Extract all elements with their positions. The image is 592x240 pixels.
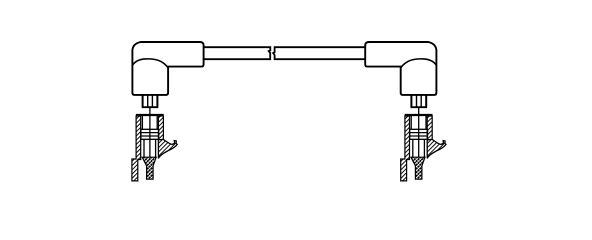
right elbow connector boot (mirrored) (365, 42, 436, 95)
left connector socket prongs (142, 96, 159, 108)
right terminal cross-section icon (401, 107, 446, 181)
left elbow connector boot (132, 42, 203, 95)
left terminal cross-section icon (132, 107, 177, 181)
ignition cable left segment with break mark (203, 47, 270, 59)
right connector socket prongs (411, 96, 428, 108)
ignition cable right segment with break mark (273, 47, 366, 59)
